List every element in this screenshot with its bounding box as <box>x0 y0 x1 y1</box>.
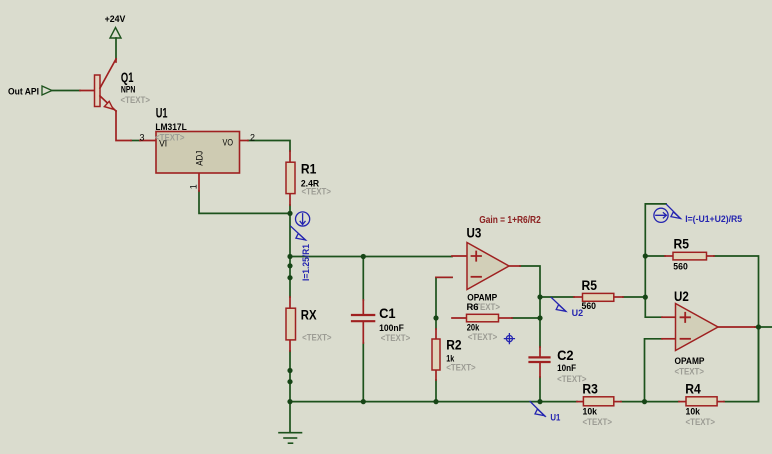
svg-text:<TEXT>: <TEXT> <box>557 373 586 384</box>
svg-text:C1: C1 <box>379 306 396 322</box>
svg-text:10k: 10k <box>583 406 598 416</box>
svg-text:1: 1 <box>188 184 198 189</box>
svg-text:LM317L: LM317L <box>155 121 187 132</box>
svg-text:<TEXT>: <TEXT> <box>302 332 331 343</box>
svg-text:OPAMP: OPAMP <box>675 355 705 366</box>
svg-text:<TEXT>: <TEXT> <box>468 331 497 342</box>
svg-text:NPN: NPN <box>121 84 135 94</box>
svg-text:I=1.25/R1: I=1.25/R1 <box>301 244 312 281</box>
svg-text:U1: U1 <box>550 412 560 423</box>
svg-text:<TEXT>: <TEXT> <box>686 417 715 428</box>
svg-text:560: 560 <box>673 261 687 271</box>
svg-text:ADJ: ADJ <box>194 151 205 166</box>
svg-text:U3: U3 <box>467 224 482 240</box>
svg-text:U2: U2 <box>572 308 583 318</box>
svg-text:R1: R1 <box>301 161 316 177</box>
svg-text:Q1: Q1 <box>121 69 134 85</box>
svg-text:<TEXT>: <TEXT> <box>675 366 704 377</box>
svg-text:<TEXT>: <TEXT> <box>121 94 150 105</box>
svg-text:R6: R6 <box>467 301 479 312</box>
svg-text:Out API: Out API <box>8 86 39 97</box>
svg-text:RX: RX <box>301 306 317 322</box>
svg-text:<TEXT>: <TEXT> <box>583 417 612 428</box>
svg-text:10nF: 10nF <box>557 363 577 374</box>
svg-text:10k: 10k <box>686 406 701 416</box>
svg-text:I=(-U1+U2)/R5: I=(-U1+U2)/R5 <box>685 214 742 224</box>
svg-text:U1: U1 <box>156 105 168 122</box>
svg-text:U2: U2 <box>674 288 689 304</box>
svg-text:560: 560 <box>582 300 596 310</box>
svg-text:C2: C2 <box>557 348 573 364</box>
svg-text:R5: R5 <box>674 235 689 251</box>
svg-text:Gain = 1+R6/R2: Gain = 1+R6/R2 <box>479 214 541 225</box>
svg-text:<TEXT>: <TEXT> <box>446 362 475 373</box>
svg-text:+24V: +24V <box>105 14 127 24</box>
svg-text:R4: R4 <box>685 381 701 397</box>
svg-text:<TEXT>: <TEXT> <box>302 186 331 197</box>
svg-text:<TEXT>: <TEXT> <box>381 332 410 343</box>
svg-text:R2: R2 <box>446 337 461 353</box>
svg-text:3: 3 <box>140 132 145 142</box>
svg-text:VI: VI <box>159 138 167 149</box>
svg-text:VO: VO <box>223 137 234 148</box>
svg-text:2: 2 <box>250 132 255 142</box>
svg-text:R5: R5 <box>582 277 597 293</box>
